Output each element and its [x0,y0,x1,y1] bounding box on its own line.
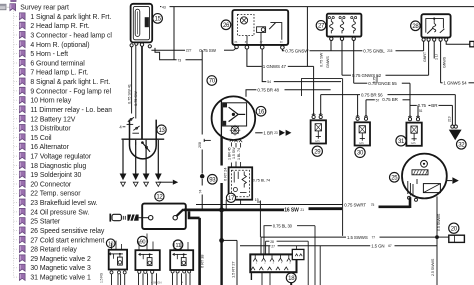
svg-text:0.5 SWWS: 0.5 SWWS [437,213,441,231]
svg-text:BR: BR [431,103,438,108]
svg-text:0.75 BR 56: 0.75 BR 56 [361,92,383,97]
bus 6 RT 24 (alternator B+) [220,137,222,166]
tree item: 6 Ground terminal [14,62,19,64]
svg-text:1 BL 74: 1 BL 74 [237,148,241,160]
svg-text:22 Temp. sensor: 22 Temp. sensor [30,191,81,198]
diagnostic plug 18 [250,254,296,272]
svg-text:25: 25 [391,175,398,181]
svg-text:93: 93 [209,177,216,183]
bus 16 SW 21 (battery positive) [183,208,284,211]
svg-text:85: 85 [245,40,248,44]
retard relay 28 [421,14,450,37]
junction [219,238,224,243]
svg-text:12 Battery 12V: 12 Battery 12V [30,116,75,123]
relay 11 stubs [173,241,175,250]
svg-text:0.75 GNSW: 0.75 GNSW [285,48,309,53]
svg-text:28 Retard relay: 28 Retard relay [30,247,77,254]
svg-text:29 Magnetic valve 2: 29 Magnetic valve 2 [30,256,91,263]
tree item: 22 Temp. sensor [14,192,19,194]
circled 31 [396,136,406,146]
tree root label [10,4,16,11]
svg-text:8 Signal & park light L. Frt.: 8 Signal & park light L. Frt. [30,79,110,86]
svg-text:5 Horn - Left: 5 Horn - Left [30,51,68,58]
svg-text:18: 18 [288,276,295,282]
svg-text:17 Voltage regulator: 17 Voltage regulator [30,154,91,161]
wire 227 / 0.75 SW (coil to relay 26) [151,49,185,51]
circled 70 [207,76,217,86]
tree item: 3 Connector - head lamp cl [14,34,19,36]
svg-text:73: 73 [177,58,181,62]
svg-text:20: 20 [451,226,458,232]
wire 1.5 SWWS 77 [261,236,346,238]
svg-text:27: 27 [318,24,325,30]
svg-text:54: 54 [267,80,271,84]
wire drop to valve 29 [313,66,315,115]
svg-text:0.75 BR 48: 0.75 BR 48 [257,87,279,92]
svg-text:15: 15 [155,17,162,23]
svg-text:2: 2 [264,263,266,265]
starter arrow [447,180,452,182]
tree item icon fragment (top edge) [11,0,16,2]
wires below relay 10 [111,274,113,285]
tree guide lines [13,1,15,277]
circled 32 [457,140,467,150]
wire drop [268,246,270,255]
svg-text:12: 12 [156,195,163,201]
battery 12 [142,204,186,229]
wire 0.75 link [376,75,378,83]
circled 17 [226,193,235,202]
cable 6 RT 38 (battery to starter) [189,211,200,218]
tree item: 28 Retard relay [14,248,19,250]
svg-text:1.5 RG: 1.5 RG [100,272,104,283]
svg-text:27 Cold start enrichment: 27 Cold start enrichment [30,237,104,244]
wire riser 28 short [433,41,435,58]
svg-text:0.75 SW 41: 0.75 SW 41 [127,83,132,104]
relay 26 terminal 4 [281,46,285,50]
relay 90 [135,250,159,270]
wire 0.75 SW 42 [135,45,137,118]
wire 0.5 SWWS [436,196,438,285]
svg-text:215: 215 [387,49,392,53]
wire drop to valve 31 [409,83,411,117]
wire to terminal 61 (right edge) [446,41,469,44]
svg-text:67: 67 [388,244,392,248]
wire 1.5 RT 27 [222,239,237,241]
tree item: 20 Connector [14,183,19,185]
relay 90 terminals [138,270,141,273]
svg-text:11 Dimmer relay - Lo. beam: 11 Dimmer relay - Lo. beam [30,107,114,114]
circled 18 [286,273,296,283]
cold start enrichment 27 [327,14,362,37]
svg-text:4: 4 [281,263,283,265]
svg-text:5: 5 [289,263,291,265]
svg-text:7 Head lamp L. Frt.: 7 Head lamp L. Frt. [30,70,88,77]
wire 0.75 BR 48 [246,90,256,97]
svg-text:6 Ground terminal: 6 Ground terminal [30,60,85,67]
relay 10 stubs [111,243,113,250]
svg-text:26 Speed sensitive relay: 26 Speed sensitive relay [30,228,104,235]
magnetic valve 29 [312,115,315,118]
wire 70/208 vertical [201,50,203,134]
wire 43 (top bus) [160,6,161,8]
magnetic valve 31 [408,118,411,121]
svg-text:0.75 BL 30: 0.75 BL 30 [273,223,293,228]
svg-text:17: 17 [228,196,235,202]
wire 54 [262,49,266,81]
wire 0.75 SW (thin, above bus) [196,204,343,206]
wire 0.75 BR 56 (to ground) [320,95,322,116]
wire riser 28 to 1 GNWS 54 [440,41,442,83]
svg-text:Survey rear part: Survey rear part [20,5,69,12]
svg-text:30: 30 [280,40,283,44]
svg-text:2 Head lamp R. Frt.: 2 Head lamp R. Frt. [30,23,89,30]
svg-text:13: 13 [158,128,165,134]
svg-text:29: 29 [314,149,321,155]
svg-text:16 Alternator: 16 Alternator [30,144,69,151]
coil 15 [131,4,153,43]
tree root icon [0,4,6,10]
circled 20 [449,223,459,233]
svg-text:4: 4 [119,125,122,130]
wire valve30 left riser [357,95,359,117]
tree item: 18 Diagnostic plug [14,164,19,166]
tree item: 9 Connector - Fog lamp rel [14,90,19,92]
dimmer relay 11 [170,250,193,270]
wire to connector 20 [437,236,449,238]
svg-text:70: 70 [209,79,216,85]
coil terminal 1 [130,44,133,47]
wire riser 43-73 [173,7,175,60]
svg-text:26: 26 [223,23,230,29]
circled 90 [138,236,148,246]
svg-text:18 Diagnostic plug: 18 Diagnostic plug [30,163,86,170]
svg-text:27: 27 [271,244,275,248]
circled 30 [355,147,365,157]
svg-text:2: 2 [180,281,184,283]
svg-text:9 Connector - Fog lamp rel: 9 Connector - Fog lamp rel [30,88,111,95]
coil terminal (right) [148,45,151,48]
magnetic valve 30 [356,117,359,120]
tree item: 13 Distributor [14,127,19,129]
voltage regulator 17 [229,167,253,199]
svg-text:32: 32 [458,142,465,148]
svg-text:23 Brakefluid level sw.: 23 Brakefluid level sw. [30,200,97,207]
wire 15 (ignition feed) [259,201,261,238]
tree item: 17 Voltage regulator [14,155,19,157]
svg-text:208: 208 [198,142,202,148]
tree item: 27 Cold start enrichment [14,239,19,241]
wire 1.5 GN 67 [240,245,270,247]
circled 15 [153,14,163,24]
svg-text:1.5 GN: 1.5 GN [371,244,384,249]
svg-text:23: 23 [274,131,278,135]
speed sensitive relay 26 [232,10,288,45]
alternator terminals [230,140,233,142]
wire 1 BR 45 [230,142,232,146]
circled 27 [316,21,326,31]
wires below relay 11 [172,273,174,285]
relay 26 terminal 2 [245,45,249,49]
svg-text:19 Solderjoint 30: 19 Solderjoint 30 [30,172,81,179]
svg-text:15 Coil: 15 Coil [30,135,52,142]
svg-text:0.75 SW: 0.75 SW [319,52,324,67]
tree item: 24 Oil pressure Sw. [14,211,19,213]
svg-text:21: 21 [300,208,304,212]
tree item: 26 Speed sensitive relay [14,230,19,232]
tree item: 2 Head lamp R. Frt. [14,25,19,27]
svg-text:25 Starter: 25 Starter [30,219,61,226]
tree item: 11 Dimmer relay - Lo. beam [14,109,19,111]
svg-text:1 BR 45: 1 BR 45 [227,147,231,160]
connector box (top right of plug) [292,249,304,259]
relay 26 terminal 1 [235,45,239,49]
wire riser 27 to GNWS 52 [341,41,343,76]
wire 1 GNWS 54 [441,82,443,84]
svg-text:1 GNWS 47: 1 GNWS 47 [263,64,287,69]
svg-text:GAS: GAS [359,142,364,145]
svg-text:10 Horn relay: 10 Horn relay [30,98,71,105]
relay 11 terminals [171,270,174,273]
svg-text:51: 51 [419,109,423,113]
wire riser top feed [306,7,308,67]
stray path / ignition feed [302,79,343,96]
svg-text:1 BR: 1 BR [263,131,273,136]
svg-text:1 GNWS 54: 1 GNWS 54 [443,81,467,86]
wire 73 [155,48,177,60]
connector 20 [449,235,465,242]
tree item: 25 Starter [14,220,19,222]
wires below relay 90 [138,273,140,285]
tree item: 15 Coil [14,136,19,138]
circled 29 [312,146,322,156]
svg-text:0.75 GNBL: 0.75 GNBL [363,48,385,53]
svg-text:0.75 SW: 0.75 SW [133,91,138,106]
wire 57 / 0.75 BR [365,100,367,117]
svg-text:1.5 SW: 1.5 SW [232,147,236,159]
svg-text:6 RT 38: 6 RT 38 [200,254,205,268]
circled 11 [173,240,183,250]
svg-text:0.96 GN: 0.96 GN [151,281,161,285]
svg-text:GNWS: GNWS [442,56,446,68]
junction [435,235,439,239]
svg-text:28: 28 [270,240,274,244]
spark plug wires [122,140,124,174]
tree item: 19 Solderjoint 30 [14,174,19,176]
wire regulator to bus [225,200,227,209]
tree item: 16 Alternator [14,146,19,148]
svg-text:16: 16 [258,109,265,115]
relay 27 terminals [330,37,333,40]
svg-text:219: 219 [448,116,452,122]
svg-text:90: 90 [140,239,146,245]
svg-text:1.5 SWWS: 1.5 SWWS [347,235,368,240]
tree item: 8 Signal & park light L. Frt. [14,81,19,83]
wires below plug [250,272,252,280]
svg-text:11: 11 [176,243,181,249]
wire 0.75 GNWS 52 [342,74,351,76]
relay 26 terminal 3 [260,45,264,49]
horn relay 10 [109,250,127,270]
tree item: 7 Head lamp L. Frt. [14,71,19,73]
wire regulator down [240,200,242,205]
circled 16 [256,106,266,116]
circled 12 [155,192,164,201]
connector (right edge) [470,41,474,46]
wire 0.75 GNGE 55 [354,82,368,84]
svg-text:30: 30 [357,151,364,157]
svg-text:16 SW: 16 SW [284,208,299,214]
svg-text:77: 77 [372,235,376,239]
svg-text:0.75: 0.75 [418,103,427,108]
circled 10 [106,239,115,248]
svg-text:1.5 RT 27: 1.5 RT 27 [230,261,235,278]
svg-text:31 Magnetic valve 1: 31 Magnetic valve 1 [30,275,91,282]
svg-text:3 Connector - head lamp cl: 3 Connector - head lamp cl [30,32,112,39]
svg-text:0.75 SWRT: 0.75 SWRT [344,203,366,208]
coil terminal 4 (center) [140,43,143,46]
starter 25 [402,154,447,199]
svg-text:2.5 SWWS: 2.5 SWWS [431,258,435,276]
wire 1.5 SW [235,143,237,148]
firing order arrow [158,181,173,183]
wire coil terminal 4 to distributor [141,46,143,139]
battery ground strap [110,214,148,222]
coil terminal 15 [135,42,138,45]
svg-text:20 Connector: 20 Connector [30,181,72,188]
svg-text:57: 57 [376,98,380,102]
svg-text:GAS: GAS [315,140,320,143]
tree item: 12 Battery 12V [14,118,19,120]
svg-text:1 LI: 1 LI [435,54,439,60]
wire 1 GNWS 47 [247,49,262,66]
wire drop to plug [260,237,262,254]
wire 0.75 BL 30 [264,226,272,255]
svg-text:28: 28 [412,24,419,30]
alternator 16 [212,96,256,140]
circled 93 [208,175,218,185]
circled 13 [157,125,166,134]
svg-text:43: 43 [162,5,166,9]
distributor 13 [122,120,165,159]
tree item: 4 Horn R. (optional) [14,43,19,45]
tick (left of alternator) [204,139,211,141]
tree item: 30 Magnetic valve 3 [14,267,19,269]
svg-text:227: 227 [186,49,192,53]
svg-text:0.75 BR: 0.75 BR [382,97,398,102]
wire riser 27 to GNGE 55 [353,41,355,84]
svg-text:10: 10 [108,241,113,247]
relay 10 terminals [110,271,113,274]
relay 28 terminals [422,38,425,41]
circled 26 [221,20,231,30]
svg-text:0.75 GNGE 55: 0.75 GNGE 55 [368,81,397,86]
tree item: 31 Magnetic valve 1 [14,276,19,278]
svg-text:1: 1 [256,263,258,265]
tree item: 23 Brakefluid level sw. [14,202,19,204]
wire 28 [266,240,270,242]
svg-text:0.75 BL 74: 0.75 BL 74 [253,179,270,183]
svg-text:GNWS: GNWS [325,56,330,68]
breaker contacts (above distributor) [127,117,140,133]
tree item: 29 Magnetic valve 2 [14,258,19,260]
svg-text:74: 74 [198,190,202,194]
wire 0.75 SW 41 (coil to breaker) [131,47,133,114]
svg-text:24 Oil pressure Sw.: 24 Oil pressure Sw. [30,209,89,216]
junction (solderjoint) [200,174,205,179]
svg-text:GAS: GAS [411,142,416,145]
tree item: 1 Signal & park light R. Frt. [14,15,19,17]
tree item: 10 Horn relay [14,99,19,101]
svg-text:87: 87 [260,40,263,44]
relay 90 stubs [138,241,140,250]
wire 1 BL 74 [240,143,242,148]
svg-text:15: 15 [255,198,259,202]
svg-text:6 RT 24: 6 RT 24 [223,167,228,181]
svg-text:GNRT: GNRT [423,51,427,62]
ground 32 [449,125,462,140]
wire 0.75 GNBL 215 [331,50,362,52]
wire 1 BR 23 with arrow [255,132,262,134]
junction [219,207,224,212]
svg-text:86: 86 [235,40,238,44]
svg-text:3: 3 [273,263,275,265]
wire 0.75 GNSW 46 [282,49,284,51]
wire riser 28 GNRT [428,41,430,75]
svg-text:31: 31 [398,139,405,145]
wire 0.75 BR (valve31 to ground) [417,105,419,117]
svg-text:75: 75 [371,203,375,207]
svg-text:1 Signal & park light R. Frt.: 1 Signal & park light R. Frt. [30,14,111,21]
svg-text:4 Horn R. (optional): 4 Horn R. (optional) [30,42,89,49]
tree item: 5 Horn - Left [14,53,19,55]
svg-text:30 Magnetic valve 3: 30 Magnetic valve 3 [30,265,91,272]
circled 28 [411,21,421,31]
starter terminals [408,196,411,199]
svg-text:13 Distributor: 13 Distributor [30,126,71,133]
circled 25 [390,173,400,183]
